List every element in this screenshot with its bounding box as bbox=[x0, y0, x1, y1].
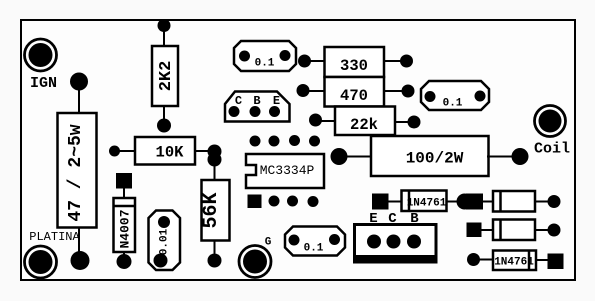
wire 470 left lead bbox=[308, 90, 325, 92]
IC MC3334P bbox=[246, 154, 324, 188]
resistor 2K2 bbox=[152, 46, 178, 106]
wire 22k right lead bbox=[395, 121, 410, 123]
node square pad above D 1N4007 bbox=[116, 173, 132, 189]
wire to R 56K bbox=[214, 160, 216, 181]
svg-text:47 / 2~5w: 47 / 2~5w bbox=[66, 124, 86, 221]
node pad below 47 bbox=[71, 251, 90, 270]
svg-text:G: G bbox=[265, 237, 272, 249]
wire row3 right lead bbox=[535, 259, 549, 261]
wire 330 left lead bbox=[310, 60, 325, 62]
node IGN pad bbox=[70, 73, 88, 91]
diode 1N4761 a bbox=[402, 191, 447, 212]
label E C B bbox=[369, 211, 419, 227]
wire R 56K bottom lead bbox=[214, 240, 216, 261]
node pad 10K left bbox=[109, 146, 120, 157]
resistor 22k bbox=[335, 107, 395, 136]
svg-text:0.1: 0.1 bbox=[255, 58, 275, 70]
wire square to 1N4007 bbox=[123, 186, 125, 199]
svg-text:C: C bbox=[235, 94, 242, 108]
capacitor 0.1 top bbox=[234, 41, 296, 71]
wire R 47 bottom lead bbox=[78, 227, 80, 261]
resistor 47/2~5w bbox=[58, 113, 97, 228]
wire 1N4007 bottom lead bbox=[123, 251, 125, 262]
node IC pin 1 square pad bbox=[248, 195, 262, 209]
wire 330 right lead bbox=[384, 60, 402, 62]
wire 10K left lead bbox=[115, 150, 136, 152]
node IC pin pads top row bbox=[250, 135, 321, 147]
svg-text:56K: 56K bbox=[200, 192, 223, 228]
resistor 330 bbox=[325, 47, 385, 77]
svg-text:10K: 10K bbox=[156, 144, 185, 162]
resistor 10K bbox=[135, 137, 195, 165]
hole PLATINA bbox=[25, 246, 57, 278]
wire blob to resistor row1 bbox=[482, 201, 494, 203]
svg-text:1N4761: 1N4761 bbox=[494, 257, 534, 269]
wire row2 left lead bbox=[480, 229, 494, 231]
wire R 2K2 bottom lead bbox=[163, 106, 165, 126]
node pad double lower bbox=[208, 153, 222, 167]
resistor 470 bbox=[325, 77, 385, 107]
svg-text:PLATINA: PLATINA bbox=[29, 230, 80, 244]
node square pad left of D 1N4761a bbox=[372, 194, 389, 210]
svg-text:100/2W: 100/2W bbox=[406, 150, 464, 168]
node pad 470 right bbox=[402, 85, 415, 98]
svg-text:0.1: 0.1 bbox=[443, 98, 463, 110]
node pad 100/2W left bbox=[331, 148, 348, 165]
wire square to 1N4761a bbox=[386, 201, 403, 203]
node pad top border bbox=[158, 19, 171, 32]
node square pad row2 left bbox=[467, 223, 482, 238]
svg-text:Coil: Coil bbox=[534, 141, 570, 158]
node pad row1 right bbox=[548, 195, 561, 208]
wire pad to R 2K2 bbox=[163, 26, 165, 47]
hole IGN bbox=[25, 39, 57, 71]
node pad 2K2 bottom bbox=[157, 119, 171, 133]
node pad row3 left bbox=[467, 253, 480, 266]
wire 470 right lead bbox=[384, 90, 404, 92]
node pad 22k right bbox=[408, 116, 421, 129]
node pad 56K bottom bbox=[208, 254, 222, 268]
wire row1 right lead bbox=[535, 201, 550, 203]
svg-text:IGN: IGN bbox=[30, 75, 57, 92]
svg-text:470: 470 bbox=[340, 87, 368, 105]
wire 100/2W right lead bbox=[487, 156, 515, 158]
wire 10K right lead bbox=[195, 150, 208, 152]
svg-text:22k: 22k bbox=[350, 116, 378, 134]
capacitor 0.1 bottom bbox=[285, 227, 345, 256]
node pad 1N4007 bottom bbox=[117, 254, 132, 269]
node pad row2 right bbox=[548, 224, 561, 237]
resistor row2 unlabeled bbox=[493, 220, 535, 241]
wire 22k left lead bbox=[321, 120, 336, 122]
svg-text:0.01: 0.01 bbox=[159, 228, 171, 255]
node pad double upper bbox=[208, 145, 222, 159]
svg-text:B: B bbox=[253, 94, 260, 108]
node blob pad circle+square bbox=[457, 194, 484, 210]
resistor row1 unlabeled bbox=[493, 191, 535, 212]
hole G bbox=[239, 246, 271, 278]
transistor E C B bbox=[355, 225, 437, 263]
svg-text:N4007: N4007 bbox=[118, 209, 133, 248]
transistor C B E bbox=[225, 92, 290, 122]
svg-text:330: 330 bbox=[340, 57, 368, 75]
node square pad row3 right bbox=[548, 254, 564, 270]
hole Coil bbox=[535, 106, 566, 137]
diode 1N4007 bbox=[114, 198, 136, 252]
resistor 56K bbox=[200, 180, 230, 241]
wire 1N4761a to blob bbox=[446, 201, 458, 203]
node pad 470 left bbox=[297, 84, 310, 97]
node pad 330 right bbox=[400, 55, 413, 68]
svg-text:1N4761: 1N4761 bbox=[407, 198, 447, 210]
node pad 100/2W right bbox=[512, 148, 529, 165]
diode 1N4761 b bbox=[493, 251, 536, 271]
resistor 100/2W bbox=[371, 136, 489, 176]
wire IGN pad to R 47/2~5w bbox=[78, 82, 80, 114]
svg-text:2K2: 2K2 bbox=[157, 61, 176, 92]
svg-text:MC3334P: MC3334P bbox=[260, 163, 315, 178]
capacitor 0.01 bbox=[149, 211, 181, 271]
node pad 330 left bbox=[298, 55, 311, 68]
capacitor 0.1 right bbox=[421, 81, 489, 110]
svg-text:E: E bbox=[273, 94, 280, 108]
node IC pin pads bottom row bbox=[269, 196, 319, 208]
wire 100/2W left lead bbox=[341, 156, 372, 158]
wire row2 right lead bbox=[535, 229, 550, 231]
svg-text:0.1: 0.1 bbox=[304, 243, 324, 255]
wire row3 left lead bbox=[478, 259, 494, 261]
node pad 22k left bbox=[309, 114, 322, 127]
